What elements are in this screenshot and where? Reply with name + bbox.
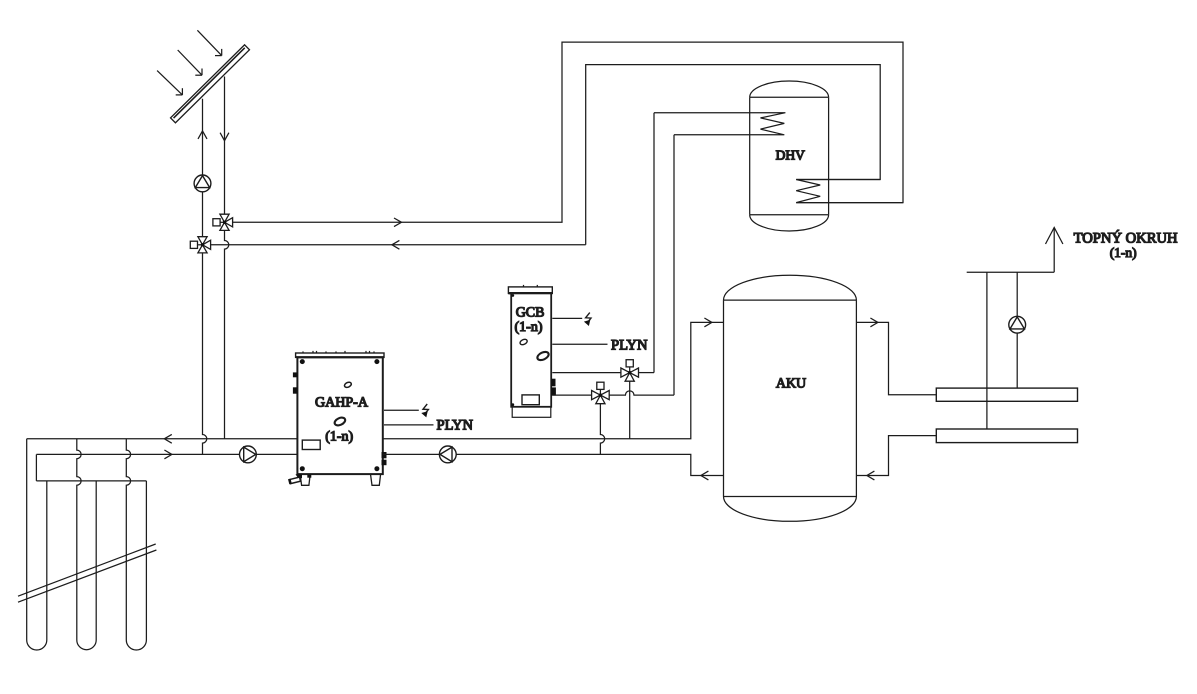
heating circuit outgoing arrow line [1046,228,1063,273]
svg-text:(1-n): (1-n) [325,429,353,444]
borehole field: supply drop from y454 [35,454,37,481]
borehole U1 bottom bend [27,640,47,650]
ground break line (double diagonal) [18,544,156,602]
svg-text:PLYN: PLYN [437,417,474,433]
borehole U3 left leg with hops [126,439,130,640]
pipe: valve V3 stem down to hot header [629,381,631,439]
pipe: ground supply to GAHP (left, y454) [36,453,297,455]
flow arrow down on right riser [220,133,229,141]
flow arrow left on solar return [392,240,400,249]
pipe: collector return (right riser) [225,77,229,439]
sun ray arrow 3 [157,71,182,95]
DHV lower coil (solar circuit) [796,180,903,203]
svg-text:PLYN: PLYN [611,337,648,353]
pipe: AKU bottom left return to GAHP (y454 east) [383,454,724,475]
pipe: GCB return to valve V4 [552,394,591,396]
borehole U3 bottom bend [126,640,146,650]
label GCB (1-n) [515,306,545,335]
svg-text:GCB: GCB [516,306,545,321]
borehole U2 bottom bend [77,640,96,650]
borehole U2 left leg with hops [77,439,81,640]
svg-text:DHV: DHV [776,148,805,163]
tank AKU [724,275,857,521]
flow arrow right out of AKU top right [870,318,878,327]
GAHP lightning bolt [421,404,428,417]
DHV upper coil (GCB circuit) [654,113,785,135]
pipe: GCB lower valve riser to DHV coil [673,135,675,395]
three-way valve V4 [592,382,610,404]
GAHP gas line [384,424,434,426]
three-way valve V2 (on left riser) [190,237,210,253]
flow arrow up on left riser [198,131,207,139]
borehole bottom header y481 [36,480,146,482]
sun ray arrow 2 [178,50,202,75]
borehole U1 left leg [26,439,28,640]
borehole U2 right leg [95,481,97,640]
pipe: solar supply to DHV (top route) [233,42,903,222]
tank DHV [750,81,829,231]
GCB electric supply line [552,317,582,319]
flow arrow left out of AKU bottom left [701,471,709,480]
pipe: collector supply (left riser) [203,99,207,455]
lower manifold bar [936,429,1077,443]
heating circuit header bar [967,271,1054,273]
label GAHP-A (1-n) [315,396,369,445]
heat pump GAHP cabinet [288,351,386,485]
sun ray arrow 1 [197,30,221,55]
solar collector panel [171,45,250,123]
pump P2 (ground loop) [240,446,257,463]
three-way valve V3 [621,360,639,382]
pipe: lower manifold to AKU bottom right [856,436,936,476]
upper manifold bar [936,388,1077,401]
GCB gas line [552,343,607,345]
GAHP electric supply line [384,409,419,411]
label TOPNY OKRUH (1-n) [1074,230,1178,260]
pipe: ground return header to GAHP (left, y439) [27,438,298,440]
three-way valve V1 (on right riser) [213,214,233,230]
pipe: valve V4 east with hop over V3 stem, to riser x674 [609,391,674,395]
svg-text:(1-n): (1-n) [1110,245,1137,260]
pump P3 (AKU loop) [439,446,456,463]
flow arrow right on solar supply [394,218,402,227]
svg-text:(1-n): (1-n) [515,320,543,335]
pipe: AKU top right to upper manifold [856,322,936,394]
pipe: valve V3 to riser x654 [639,372,655,374]
pipe: GCB upper valve riser to DHV coil [653,113,655,373]
borehole U3 right leg [145,481,147,640]
pipe: solar return from DHV [211,65,881,245]
riser from header through upper manifold to lower manifold [986,272,988,429]
pipe: valve V4 stem down with hop, to cold header [600,404,604,455]
svg-text:GAHP-A: GAHP-A [315,396,369,411]
riser with pump from header to upper manifold [1016,272,1018,388]
flow arrow right into AKU top left [704,318,712,327]
pump P1 (solar) [194,175,211,192]
borehole U1 right leg [46,481,48,640]
boiler GCB cabinet [508,285,556,417]
svg-text:AKU: AKU [776,377,806,392]
pump P4 (heating circuit) [1009,316,1026,333]
flow arrow left on ground return [164,434,172,443]
pipe: GCB flow to valve V3 [552,372,621,374]
flow arrow right on ground supply [164,450,172,459]
GCB lightning bolt [584,313,591,326]
pipe: GAHP hot out to AKU (y439 east) [383,322,724,438]
flow arrow left into AKU bottom right [867,471,875,480]
